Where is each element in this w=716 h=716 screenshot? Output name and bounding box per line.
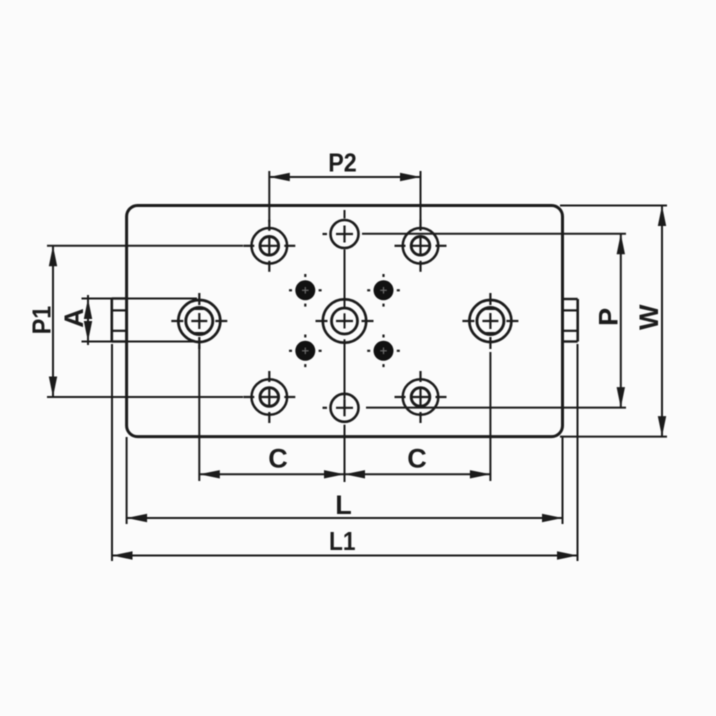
svg-text:P2: P2 (328, 147, 357, 177)
pilot port dot upper-right (367, 274, 400, 307)
port hole bottom-center (323, 394, 359, 422)
bolt hole top-right (395, 220, 447, 272)
extension line P2 left (268, 171, 270, 222)
svg-text:C: C (268, 444, 288, 474)
bolt hole top-left (243, 220, 295, 272)
dimension C (left) (199, 444, 344, 479)
port hole left (side port) (171, 293, 227, 349)
bolt hole bottom-left (243, 371, 295, 423)
pilot port dot lower-right (367, 335, 400, 368)
extension line W bottom (560, 436, 667, 438)
svg-text:C: C (407, 444, 427, 474)
bolt hole bottom-right (395, 371, 447, 423)
extension line L1 right (577, 344, 579, 561)
dimension P1 (26, 246, 57, 397)
extension line P1 top (47, 245, 243, 247)
left port slot tangent lines (also A extension lines) (82, 299, 198, 342)
dimension L (127, 490, 563, 522)
extension line C left (198, 345, 200, 481)
svg-text:A: A (59, 308, 89, 328)
left tab (112, 299, 127, 342)
dimension W (634, 206, 666, 437)
svg-text:L1: L1 (329, 526, 356, 556)
pilot port dot upper-left (289, 274, 322, 307)
dimension L1 (112, 526, 578, 560)
plate outline (127, 206, 563, 437)
port hole center (316, 299, 374, 342)
extension line P top (362, 233, 626, 235)
extension line L left (126, 437, 128, 524)
svg-text:W: W (634, 304, 664, 330)
svg-text:P1: P1 (26, 306, 56, 335)
port hole top-center (323, 220, 359, 248)
svg-text:L: L (335, 490, 352, 520)
dimension C (right) (345, 444, 491, 479)
pilot port dot lower-left (289, 335, 322, 368)
right tab (562, 299, 577, 342)
dimension P2 (269, 147, 420, 181)
extension line L right (562, 437, 564, 524)
extension line P2 right (420, 171, 422, 222)
extension line L1 left (111, 344, 113, 561)
port hole right (side port) (462, 293, 518, 349)
extension line W top (560, 205, 667, 207)
extension line P bottom (366, 407, 626, 409)
dimension A (59, 295, 92, 345)
dimension P (594, 234, 626, 408)
extension line P1 bottom (47, 396, 243, 398)
vertical centerline (344, 210, 346, 482)
extension line C right (489, 352, 491, 481)
svg-text:P: P (594, 308, 624, 326)
